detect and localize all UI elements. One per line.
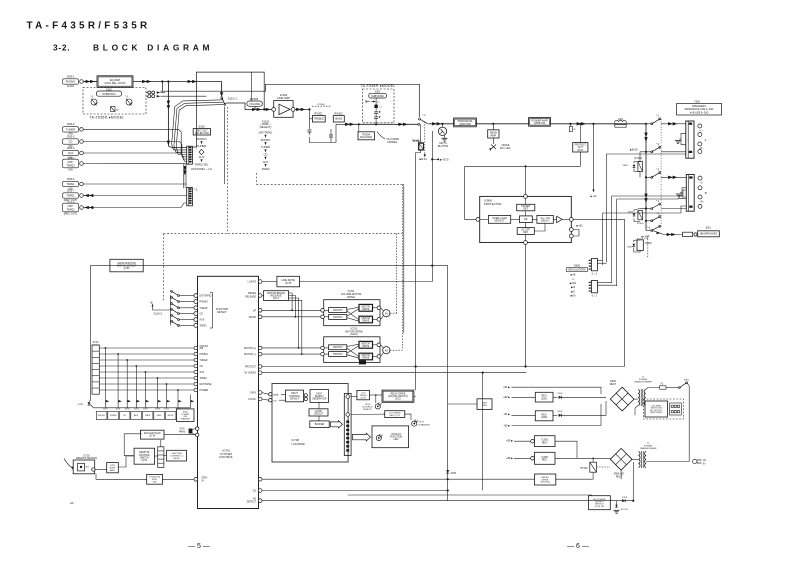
connector CN1 input selector block — [187, 146, 193, 164]
svg-text:*-6: *-6 — [647, 227, 651, 230]
arrow pair before muting switch — [398, 123, 403, 126]
power on standby box S706 — [177, 409, 194, 422]
wire T2 to mains — [646, 461, 689, 463]
wire EQ amp output along top — [133, 81, 222, 83]
svg-text:G9: G9 — [70, 501, 74, 505]
wire S110-1 takeoff down — [221, 82, 223, 94]
regulator Q902 block — [535, 411, 553, 421]
svg-text:(SWITCHED): (SWITCHED) — [650, 412, 663, 414]
svg-text:▶OFF: ▶OFF — [570, 282, 577, 285]
node tone input — [308, 108, 310, 110]
svg-text:J303-4: J303-4 — [67, 146, 75, 150]
switch S110-1 source direct — [221, 97, 223, 99]
capacitor C301 — [308, 129, 312, 131]
svg-text:OUT: OUT — [85, 467, 90, 469]
svg-text:PROTECTOR: PROTECTOR — [484, 202, 502, 206]
coupling capacitors right of phono box — [148, 91, 151, 94]
capacitor C302 — [329, 134, 333, 136]
diode D801 — [633, 165, 636, 168]
dashed box TA-F535R tone model — [363, 89, 395, 123]
dashed relay to rect — [597, 466, 611, 468]
svg-text:DRIVE: DRIVE — [347, 296, 355, 299]
svg-text:Rv802: Rv802 — [645, 243, 652, 245]
svg-text:J303-8: J303-8 — [67, 200, 75, 204]
wire phono line to EQ amp — [83, 81, 97, 83]
svg-text:TAPE2: TAPE2 — [66, 163, 75, 167]
function led box OP10-15 — [372, 426, 409, 448]
arrow selector list 1 — [200, 141, 202, 144]
pin IC703 out2 — [377, 355, 381, 359]
diode D764 on bus — [446, 470, 449, 473]
wire power amp output — [551, 123, 647, 125]
svg-text:CIRCUIT: CIRCUIT — [314, 413, 324, 415]
wire balance tap — [358, 124, 360, 132]
pin CE — [258, 489, 262, 493]
svg-text:BASS: BASS — [335, 117, 342, 121]
svg-text:D904–907: D904–907 — [614, 473, 625, 475]
arrow headphone feed — [657, 232, 661, 235]
svg-text:–R–: –R– — [699, 200, 704, 203]
svg-text:▶B-30: ▶B-30 — [420, 158, 428, 161]
svg-text:AUX: AUX — [68, 151, 74, 155]
arrow pair after muting switch — [432, 122, 437, 125]
svg-text:D708: D708 — [78, 404, 84, 406]
switch headphones — [646, 229, 651, 231]
svg-text:RV302: RV302 — [334, 112, 343, 116]
svg-text:AUX: AUX — [200, 319, 205, 322]
svg-text:MUTE: MUTE — [173, 458, 180, 460]
node mute tap — [441, 123, 443, 125]
motor drive block 4 — [359, 353, 373, 360]
svg-text:BUFFER: BUFFER — [315, 423, 325, 426]
small regulator block mid — [477, 399, 492, 410]
subsonic component — [374, 105, 377, 108]
tone circuit wiring frame — [309, 109, 311, 129]
svg-text:+B: +B — [150, 301, 153, 304]
power amp block Q508-511 — [529, 118, 551, 127]
svg-text:COAX: COAX — [67, 84, 75, 88]
open arrow buffer to connector — [330, 421, 342, 428]
svg-text:▶G9: ▶G9 — [571, 295, 577, 298]
svg-text:AE: AE — [253, 497, 257, 500]
svg-text:A+B USE 8–16Ω: A+B USE 8–16Ω — [690, 112, 709, 115]
arrow pair down relay column 2 — [644, 194, 647, 199]
svg-text:*-2: *-2 — [194, 188, 198, 192]
remote beam arrow — [64, 459, 72, 468]
node balance junction — [358, 123, 360, 125]
pin IC800 right — [569, 218, 573, 222]
svg-text:SEG Q717: SEG Q717 — [389, 415, 400, 417]
dashed link muting relay — [424, 122, 426, 155]
arrow pair after EQ amp — [142, 80, 147, 83]
svg-text:DET: DET — [523, 231, 528, 234]
svg-text:▶+B1: ▶+B1 — [577, 225, 584, 228]
svg-text:TUNER: TUNER — [200, 360, 208, 362]
transistor Q2 phono switch — [126, 99, 132, 105]
svg-text:J303-3: J303-3 — [67, 134, 75, 138]
wire rec bus down to CN2 — [183, 164, 185, 188]
svg-text:D901: D901 — [557, 393, 563, 395]
pin IC800 bottom — [524, 241, 528, 245]
arrow pair after tone — [345, 123, 350, 126]
bottom bus lines — [352, 490, 449, 492]
svg-text:CD: CD — [200, 366, 204, 368]
svg-text:— 6 —: — 6 — — [567, 543, 589, 550]
diode D901 — [553, 396, 558, 398]
svg-text:LINE AMP: LINE AMP — [277, 96, 290, 100]
wire relay bus corner — [416, 366, 625, 368]
wire protect out down — [465, 152, 581, 166]
speaker terminal strip A — [686, 121, 694, 158]
svg-text:TAPE1: TAPE1 — [66, 182, 75, 186]
wire tape1 input to CN2 — [83, 183, 186, 185]
svg-text:RELEASE: RELEASE — [245, 295, 256, 298]
svg-text:L MUTE: L MUTE — [248, 282, 257, 284]
diode D802 — [633, 213, 636, 216]
svg-text:TREBLE: TREBLE — [314, 117, 324, 121]
node speakers A low — [645, 151, 647, 153]
vertical bus 415 relay drive — [415, 153, 417, 391]
svg-text:(S110): (S110) — [350, 333, 357, 336]
key name boxes row — [96, 412, 107, 420]
vertical bus 403 — [403, 184, 405, 333]
bridge rectifier D904-907 — [610, 448, 632, 470]
svg-text:REG: REG — [482, 405, 487, 407]
svg-text:S701: S701 — [116, 409, 122, 411]
svg-text:Q712: Q712 — [395, 399, 401, 401]
svg-text:AMP: AMP — [491, 133, 497, 137]
arrow pair down relay column — [644, 133, 647, 138]
svg-text:TAPE2: TAPE2 — [66, 207, 75, 211]
wire S110-1 output to volume node — [226, 103, 273, 109]
strip B internal bracket ground — [682, 188, 686, 197]
switch speakers B — [651, 176, 653, 178]
wire tone output — [344, 123, 418, 125]
output coil L601 R601 — [610, 123, 615, 125]
svg-text:(IN): (IN) — [68, 167, 72, 171]
wire 5v check drop — [482, 373, 484, 491]
brake fan wires to motor lines — [289, 293, 293, 310]
svg-text:S708: S708 — [155, 409, 161, 411]
buffer triangle — [557, 216, 563, 222]
switch speakers A — [646, 123, 651, 125]
transformer T1 — [634, 398, 638, 400]
svg-text:DAT/TAPE1 →LO: DAT/TAPE1 →LO — [191, 167, 212, 171]
svg-text:Q901: Q901 — [541, 397, 548, 400]
digit select generator block — [310, 390, 329, 403]
diamond cd symbol — [199, 149, 204, 154]
pin motor plus — [258, 346, 262, 350]
pin IC800 top — [524, 195, 528, 199]
strip A internal bracket ground — [681, 133, 686, 144]
switch headphones pre — [651, 220, 653, 222]
selector motor drive IC703 box — [324, 337, 380, 363]
selector motor M — [381, 345, 384, 348]
arrow pair rec bus — [183, 166, 186, 171]
svg-text:S702: S702 — [164, 409, 170, 411]
wire selector bundle line 1 — [172, 100, 224, 150]
svg-text:CLOCK: CLOCK — [248, 399, 256, 401]
pin motor minus — [258, 352, 262, 356]
svg-text:*-1: *-1 — [125, 96, 129, 99]
svg-text:SWITCH: SWITCH — [333, 309, 343, 312]
resistor headphone — [683, 232, 693, 236]
variable resistor RV802 — [637, 240, 643, 251]
remote control switch Q711 — [134, 448, 155, 464]
wire phono feed vertical to selector — [167, 82, 169, 147]
wire tape1 rec out from CN2 — [83, 195, 186, 197]
svg-text:*-1: *-1 — [656, 115, 660, 118]
bridge rectifier D900 — [610, 387, 634, 411]
transformer T2 — [632, 458, 638, 460]
capacitor subsonic 1 — [375, 98, 377, 112]
svg-text:GENERATOR: GENERATOR — [312, 397, 327, 400]
svg-text:(REC OUT): (REC OUT) — [64, 211, 78, 215]
svg-text:CD: CD — [123, 415, 127, 417]
svg-text:S705: S705 — [125, 409, 131, 411]
wire regs to bridge2 — [555, 441, 577, 458]
wire relay drive line — [262, 478, 535, 480]
svg-text:S703: S703 — [134, 409, 140, 411]
balance control RV304 — [358, 132, 375, 140]
svg-text:CD: CD — [264, 153, 268, 157]
dashed box TA-F535R phono model — [83, 88, 146, 115]
svg-text:S901: S901 — [684, 379, 690, 381]
pin motor down — [258, 315, 262, 319]
svg-text:3-2.: 3-2. — [53, 43, 70, 53]
svg-text:–L–: –L– — [699, 182, 704, 185]
wire detect line horizontal — [90, 265, 447, 267]
buffer Q701 — [95, 469, 107, 471]
switch block 4 — [329, 352, 347, 357]
svg-text:B: B — [705, 191, 707, 195]
over load detect block — [488, 215, 510, 223]
key switch row — [104, 395, 106, 408]
svg-text:5V CHECK: 5V CHECK — [245, 373, 257, 375]
IC700 io pins group — [194, 346, 198, 350]
dotted gang line speakers switch — [660, 119, 662, 227]
node B-30 bus — [431, 158, 433, 160]
svg-text:TUNER: TUNER — [261, 145, 270, 149]
wire T1 primary to fuse — [646, 388, 660, 390]
svg-text:AUX: AUX — [199, 155, 205, 159]
bus L2 — [348, 494, 592, 496]
bottom bus CE — [347, 456, 349, 496]
svg-text:S707: S707 — [103, 409, 109, 411]
svg-text:*-4: *-4 — [656, 200, 660, 203]
node junction stub — [161, 80, 163, 82]
wire rec loop top bypass — [196, 72, 264, 147]
motor brake release block Q713 — [262, 295, 264, 297]
svg-text:VOLUME: VOLUME — [249, 102, 260, 106]
svg-text:DETECT: DETECT — [217, 311, 227, 314]
svg-text:TAPE1: TAPE1 — [200, 325, 208, 328]
svg-text:DAT/TAPE1: DAT/TAPE1 — [259, 131, 273, 135]
svg-text:DRIVE: DRIVE — [362, 346, 369, 348]
arrow pair before S110-1 — [188, 80, 193, 83]
lcd connector strip — [344, 394, 351, 456]
power switch S901 — [678, 387, 680, 389]
wire aux input to connector — [83, 153, 186, 161]
svg-text:DETECT: DETECT — [495, 220, 505, 223]
svg-text:TAPE2: TAPE2 — [200, 377, 208, 380]
svg-text:DIRECT): DIRECT) — [363, 409, 372, 411]
key switch common bus — [94, 407, 191, 409]
diode D703 on AE bus — [622, 499, 625, 502]
svg-text:DET: DET — [523, 208, 528, 211]
svg-text:MUTE: MUTE — [168, 415, 175, 417]
standby in pin — [163, 478, 194, 480]
wire headphone line — [664, 234, 683, 236]
svg-text:(SELECT): (SELECT) — [260, 125, 272, 129]
motor drive block 1 — [359, 304, 373, 311]
wire bridge2 bottom — [620, 470, 622, 479]
wire tape monitor feed up to S110-1 — [223, 107, 225, 185]
wire CE bus — [262, 490, 448, 492]
pin IC704 in1 — [321, 309, 325, 313]
svg-text:RY900: RY900 — [581, 468, 589, 470]
connector bracket remote — [158, 447, 164, 468]
svg-text:BUTTON: BUTTON — [438, 145, 448, 148]
wire -B2 rail — [512, 404, 602, 426]
node dead amp tap — [492, 123, 494, 125]
pin 5v check — [258, 371, 262, 375]
wire protect to IC800 input — [465, 166, 476, 219]
svg-text:TAPE2: TAPE2 — [261, 167, 270, 171]
svg-text:TUNER: TUNER — [110, 415, 118, 417]
svg-text:▶G: ▶G — [571, 290, 575, 293]
svg-text:TAPE1: TAPE1 — [66, 194, 75, 198]
svg-text:AUX: AUX — [263, 160, 269, 164]
svg-text:TA-F435R/F535R: TA-F435R/F535R — [27, 20, 151, 31]
svg-text:*-3: *-3 — [656, 168, 660, 171]
svg-text:▶+ADP: ▶+ADP — [642, 236, 650, 239]
terminal A L- — [698, 133, 702, 137]
diode D708 scan — [88, 402, 91, 405]
motor drive block 3 — [359, 341, 373, 348]
svg-text:DAT/TAPE2: DAT/TAPE2 — [200, 295, 213, 298]
svg-text:ON/OFF: ON/OFF — [200, 346, 209, 348]
svg-text:+B2 ▶: +B2 ▶ — [503, 396, 510, 399]
svg-text:(STANDBY): (STANDBY) — [418, 424, 430, 427]
svg-text:DAT/: DAT/ — [68, 160, 74, 164]
svg-text:S710: S710 — [93, 341, 99, 344]
svg-text:–L– 2: –L– 2 — [591, 294, 598, 297]
wire source direct path — [161, 84, 420, 117]
switch speakers A low — [651, 151, 653, 153]
svg-text:D764: D764 — [451, 473, 457, 475]
svg-text:AMP: AMP — [110, 469, 115, 472]
function detect bracket — [212, 293, 214, 329]
lcd drive IC708 box — [272, 384, 348, 463]
wire to strip B — [646, 176, 651, 178]
svg-text:4MHz: 4MHz — [179, 432, 186, 434]
svg-text:TRANS-FORMER: TRANS-FORMER — [634, 380, 652, 383]
svg-text:AUX: AUX — [134, 414, 139, 417]
svg-text:CD: CD — [200, 314, 204, 316]
svg-text:SUBSONIC: SUBSONIC — [371, 95, 384, 98]
shutter control block — [167, 450, 187, 461]
wire RV305 jog — [416, 150, 421, 152]
svg-text:Q508-511: Q508-511 — [534, 121, 546, 125]
wire muting switch out — [429, 123, 454, 125]
svg-text:CONTROL: CONTROL — [219, 455, 234, 459]
svg-text:+B5 ▶: +B5 ▶ — [506, 440, 513, 443]
svg-text:▼D704: ▼D704 — [621, 508, 629, 511]
delay tap wire — [534, 223, 545, 231]
svg-text:TUNER: TUNER — [197, 144, 206, 148]
svg-text:PHONO: PHONO — [66, 80, 76, 84]
svg-text:DATA: DATA — [273, 393, 279, 396]
wire relay drive right to bus — [414, 395, 416, 397]
switch common S110-2 — [169, 295, 171, 326]
wire relay column vertical — [645, 124, 647, 231]
lcd drive segment block — [385, 411, 405, 418]
svg-text:DAT/: DAT/ — [157, 414, 162, 417]
svg-text:MODEL: MODEL — [388, 140, 398, 144]
arrow selector list 2 — [200, 159, 202, 162]
pin IC703 out1 — [377, 343, 381, 347]
svg-text:TAPE2 SEL: TAPE2 SEL — [194, 162, 209, 166]
switch cluster S110-2 — [180, 295, 195, 297]
wire IC800 top pin — [525, 166, 527, 194]
svg-text:▶–B 30: ▶–B 30 — [440, 159, 449, 162]
svg-text:▶B+30: ▶B+30 — [630, 149, 638, 152]
svg-text:RECT: RECT — [616, 476, 623, 478]
svg-text:D703: D703 — [622, 497, 628, 499]
svg-text:LCD DRIVE: LCD DRIVE — [292, 443, 306, 446]
svg-text:TA-F535R ●MODEL: TA-F535R ●MODEL — [90, 115, 125, 119]
svg-text:DELAY: DELAY — [541, 220, 549, 223]
EQ amp block Q101 — [97, 76, 133, 88]
relay drive block bottom — [535, 474, 556, 485]
subsonic switch icons — [366, 101, 370, 103]
wire line amp to tone — [295, 108, 310, 110]
connector CN601 speaker A — [591, 259, 597, 271]
svg-text:CD: CD — [69, 140, 73, 144]
pin IC703 in2 — [321, 352, 325, 356]
svg-text:J303-6: J303-6 — [67, 177, 75, 181]
svg-text:MOTOR (–): MOTOR (–) — [244, 354, 256, 356]
svg-text:RECT: RECT — [610, 383, 617, 386]
pin data — [258, 391, 262, 395]
wire data to IC708 — [262, 393, 269, 395]
svg-text:SUBSONIC: SUBSONIC — [102, 92, 116, 96]
regulator Q901 block — [535, 392, 553, 402]
svg-text:J303-7: J303-7 — [67, 188, 75, 192]
svg-text:▶+B: ▶+B — [571, 274, 576, 277]
svg-text:DETECT: DETECT — [247, 502, 257, 504]
svg-text:LED: LED — [394, 438, 399, 441]
dashed linkage top edge — [164, 233, 403, 235]
wire IC800 right to relay bus — [573, 219, 624, 366]
switch block 3 — [329, 345, 347, 350]
arrow pair to strip A — [668, 122, 673, 125]
lcd drive block Q715 — [357, 390, 370, 399]
wire dat/tape input to connector — [83, 162, 186, 164]
terminal A L+ — [698, 124, 702, 128]
svg-text:OP17: OP17 — [418, 422, 424, 424]
arrow into S110-1 — [220, 92, 223, 97]
dashed linkage to S110-2 — [163, 234, 165, 301]
arrow pair into line amp — [252, 108, 257, 111]
relay coil phono mute — [111, 107, 116, 112]
svg-text:SWITCH: SWITCH — [333, 346, 343, 349]
svg-text:Q716,703: Q716,703 — [595, 506, 605, 508]
wire return verticals to connectors — [606, 209, 608, 262]
volume motor drive IC704 box — [324, 300, 380, 326]
svg-text:SPEAKERS: SPEAKERS — [692, 104, 706, 108]
